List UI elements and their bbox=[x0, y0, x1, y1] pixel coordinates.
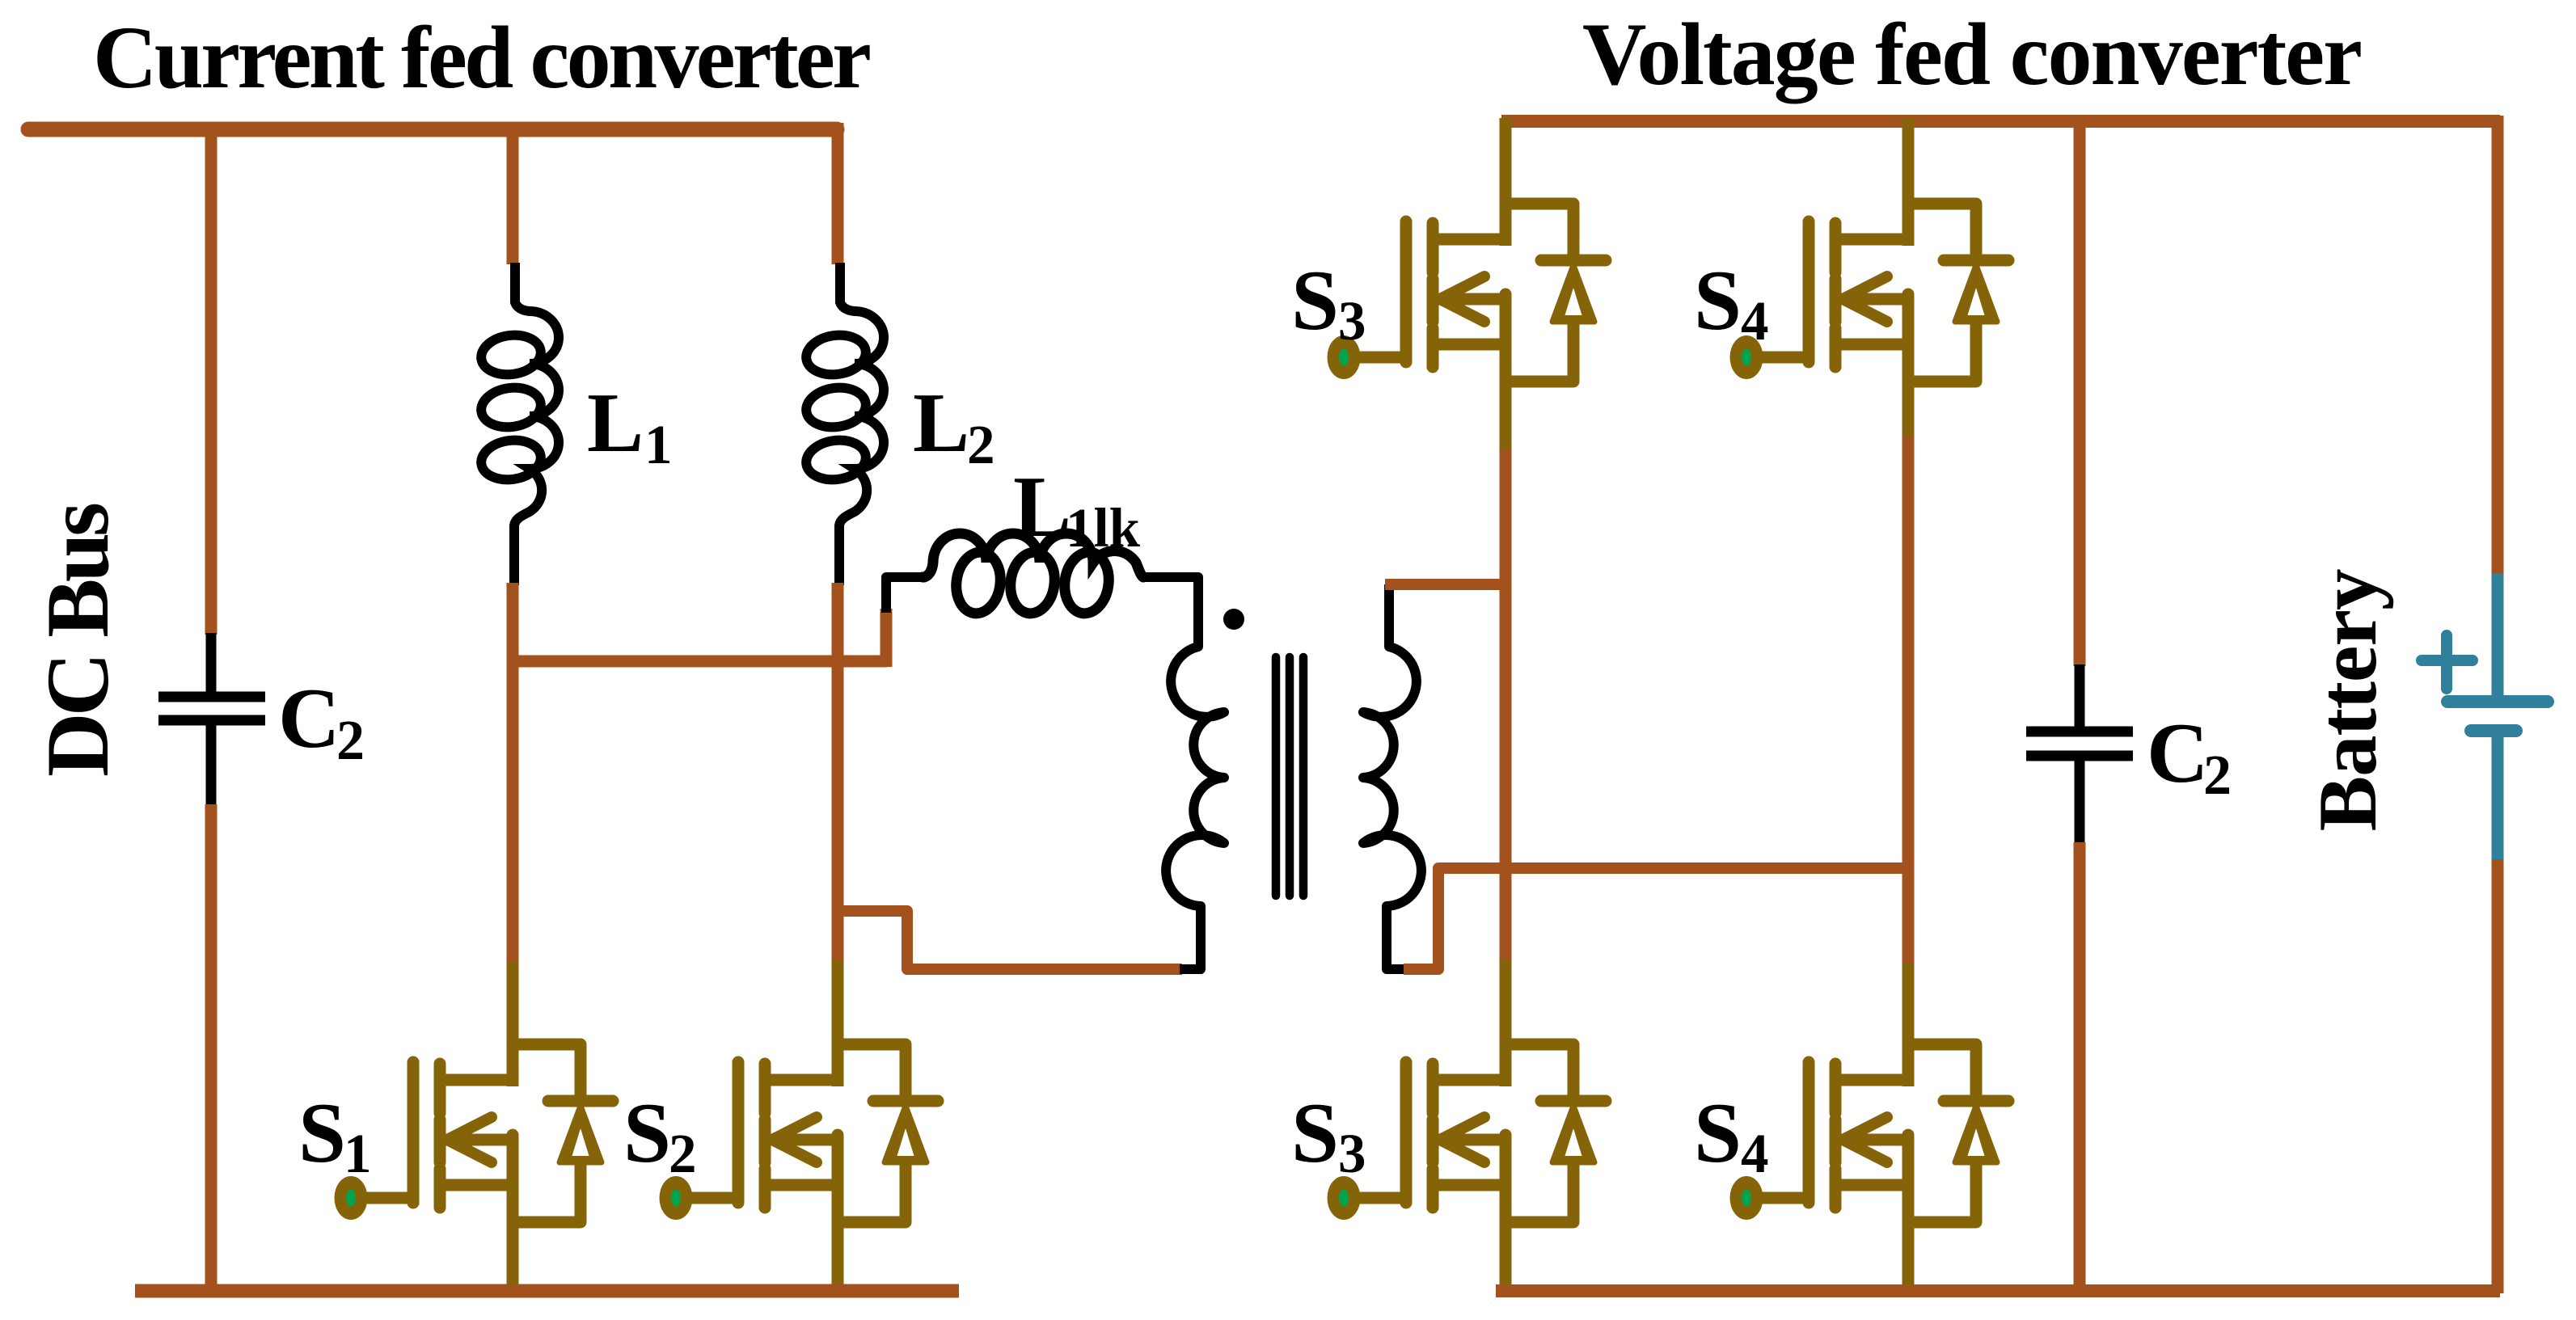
wire S1 source to bus bbox=[507, 1219, 519, 1293]
wire secondary top to left leg bbox=[1385, 579, 1509, 590]
svg-text:S: S bbox=[1291, 253, 1339, 348]
wire S3 bottom source to bus bbox=[1500, 1219, 1512, 1293]
wire bottom bus right bbox=[1496, 1284, 2500, 1297]
svg-text:2: 2 bbox=[967, 414, 995, 475]
wire S2 source to bus bbox=[832, 1219, 844, 1293]
svg-text:3: 3 bbox=[1338, 290, 1366, 352]
wire secondary bottom link bbox=[1404, 868, 1911, 969]
wire battery branch lower bbox=[2492, 859, 2504, 1293]
svg-text:S: S bbox=[623, 1086, 671, 1180]
svg-text:L: L bbox=[1013, 459, 1071, 555]
svg-text:2: 2 bbox=[2203, 744, 2232, 807]
svg-text:S: S bbox=[1694, 253, 1742, 348]
wire S1 drain olive bbox=[507, 962, 519, 1046]
wire L2 top lead bbox=[835, 263, 845, 302]
battery cell bbox=[2492, 573, 2504, 697]
wire L1 branch from bus bbox=[507, 129, 519, 264]
wire right leg olive lower bbox=[1902, 964, 1915, 1046]
svg-text:S: S bbox=[298, 1086, 346, 1180]
inductor L1 bbox=[479, 301, 559, 533]
wire node B horizontal bbox=[838, 911, 1182, 969]
wire L1 to S1 drain bbox=[507, 583, 519, 965]
transformer primary winding bbox=[1142, 577, 1224, 969]
wire S3 top drain stub bbox=[1500, 118, 1512, 205]
wire top bus left bbox=[28, 122, 837, 137]
battery plus sign bbox=[2422, 635, 2473, 689]
wire node A riser bbox=[880, 609, 893, 667]
mosfet S2 bbox=[660, 1044, 939, 1227]
wire L1 top lead bbox=[510, 263, 520, 302]
svg-text:L: L bbox=[587, 375, 644, 470]
capacitor C2 left bbox=[206, 633, 217, 693]
svg-text:C: C bbox=[2147, 706, 2209, 800]
svg-text:1: 1 bbox=[644, 414, 673, 475]
wire L2 bottom lead bbox=[834, 531, 844, 585]
wire S4 top drain stub bbox=[1902, 118, 1915, 205]
transformer polarity dot bbox=[1223, 609, 1244, 630]
wire top bus right bbox=[1501, 115, 2500, 128]
svg-text:4: 4 bbox=[1741, 290, 1769, 352]
svg-text:3: 3 bbox=[1338, 1123, 1366, 1184]
transformer secondary winding bbox=[1363, 584, 1421, 969]
wire C2 right branch lower bbox=[2074, 842, 2086, 1293]
svg-text:S: S bbox=[1291, 1086, 1339, 1180]
wire node A black elbow bbox=[886, 577, 924, 613]
wire L1 bottom lead bbox=[509, 531, 519, 585]
svg-text:1: 1 bbox=[344, 1123, 372, 1184]
mosfet S3 bottom bbox=[1328, 1044, 1607, 1227]
wire left leg olive lower bbox=[1500, 960, 1512, 1046]
wire right leg brown bbox=[1902, 436, 1915, 966]
wire left leg olive upper bbox=[1500, 380, 1512, 451]
svg-text:4: 4 bbox=[1741, 1123, 1769, 1184]
wire left leg brown bbox=[1500, 449, 1512, 963]
inductor L1lk bbox=[923, 533, 1143, 616]
svg-text:Voltage fed converter: Voltage fed converter bbox=[1582, 5, 2363, 103]
mosfet S4 top bbox=[1730, 204, 2009, 386]
transformer core bbox=[1272, 657, 1281, 896]
inductor L2 bbox=[804, 301, 884, 533]
wire L2 to S2 drain bbox=[832, 583, 844, 964]
capacitor C2 right bbox=[2075, 664, 2085, 727]
svg-text:1lk: 1lk bbox=[1066, 497, 1141, 559]
svg-text:Battery: Battery bbox=[2302, 569, 2394, 832]
wire bottom bus left bbox=[135, 1284, 959, 1298]
wire C2 right branch upper bbox=[2074, 121, 2086, 666]
svg-text:DC Bus: DC Bus bbox=[28, 502, 127, 777]
svg-text:S: S bbox=[1694, 1086, 1742, 1180]
mosfet S1 bbox=[335, 1044, 614, 1227]
mosfet S3 top bbox=[1328, 204, 1607, 386]
svg-text:C: C bbox=[278, 671, 340, 765]
wire L2 branch from bus bbox=[832, 123, 844, 264]
svg-text:Current fed converter: Current fed converter bbox=[93, 8, 872, 107]
wire right leg olive upper bbox=[1902, 380, 1915, 439]
svg-text:L: L bbox=[913, 375, 969, 470]
wire DC bus left vertical upper bbox=[205, 122, 217, 635]
wire DC bus left vertical lower bbox=[205, 804, 217, 1293]
wire node A horizontal bbox=[507, 656, 887, 668]
wire S4 bottom source to bus bbox=[1902, 1219, 1915, 1293]
svg-text:2: 2 bbox=[669, 1123, 697, 1184]
wire node B black elbow bbox=[1180, 964, 1202, 974]
wire battery branch upper bbox=[2492, 116, 2504, 575]
mosfet S4 bottom bbox=[1730, 1044, 2009, 1227]
svg-text:2: 2 bbox=[336, 710, 365, 772]
wire S2 drain olive bbox=[832, 960, 844, 1046]
